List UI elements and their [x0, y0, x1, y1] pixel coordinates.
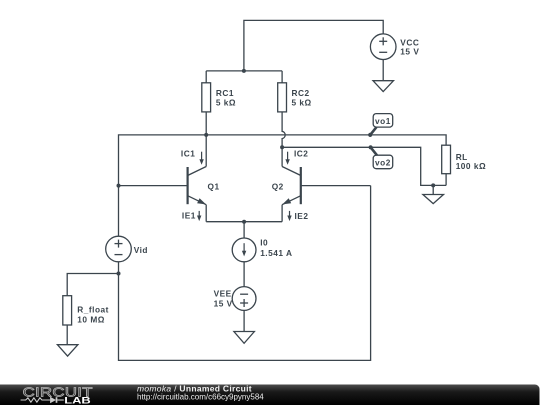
svg-text:I0: I0 — [260, 237, 268, 247]
annotation arrow IC1 — [199, 152, 203, 165]
svg-text:R_float: R_float — [77, 305, 109, 315]
label R_float value — [77, 305, 109, 325]
label IE1 — [182, 210, 196, 220]
wire vo2 net — [282, 147, 446, 185]
svg-text:LAB: LAB — [64, 396, 91, 405]
label vo1 — [375, 116, 391, 126]
svg-text:IC2: IC2 — [294, 148, 308, 158]
CircuitLab logo — [21, 385, 93, 405]
svg-text:IC1: IC1 — [181, 148, 195, 158]
svg-text:10 MΩ: 10 MΩ — [77, 314, 105, 324]
svg-text:100 kΩ: 100 kΩ — [456, 161, 486, 171]
label RC1 value — [216, 88, 236, 107]
node junction Vid bottom — [117, 272, 121, 276]
annotation arrow IE2 — [287, 211, 291, 221]
net flag vo1 — [368, 114, 393, 137]
label IE2 — [295, 211, 309, 221]
ground under RL — [423, 195, 444, 204]
current source I0 — [232, 222, 256, 287]
label vo2 — [375, 158, 391, 168]
wire R_float branch — [67, 274, 118, 296]
resistor RL — [442, 145, 451, 185]
transistor Q1 — [188, 135, 207, 222]
node junction RC2 collector — [280, 145, 284, 149]
node junction RL bottom — [431, 183, 435, 187]
label RC2 value — [292, 88, 312, 107]
ground under R_float — [57, 345, 78, 356]
svg-text:http://circuitlab.com/c66cy9py: http://circuitlab.com/c66cy9pyny584 — [137, 393, 264, 402]
voltage source Vid — [106, 186, 132, 274]
svg-text:Q2: Q2 — [272, 182, 284, 192]
resistor RC1 — [202, 71, 211, 135]
wire Q2 base — [301, 185, 371, 187]
ground under VEE — [234, 332, 255, 344]
annotation arrow IE1 — [197, 211, 201, 221]
wire bottom feedback loop — [119, 186, 371, 361]
voltage source VCC — [370, 34, 396, 81]
svg-text:Vid: Vid — [134, 245, 148, 255]
footer bar — [0, 385, 540, 405]
svg-text:vo1: vo1 — [375, 116, 391, 126]
node junction emitter rail — [242, 220, 246, 224]
node junction top rail — [242, 69, 246, 73]
svg-text:IE2: IE2 — [295, 211, 309, 221]
svg-text:15 V: 15 V — [400, 46, 419, 56]
svg-text:5 kΩ: 5 kΩ — [292, 97, 312, 107]
wire Q1 base — [119, 185, 188, 187]
svg-text:15 V: 15 V — [214, 298, 233, 308]
label IC2 — [294, 148, 308, 158]
wire emitter rail — [206, 221, 282, 223]
node junction Q1 base — [117, 184, 121, 188]
svg-text:IE1: IE1 — [182, 210, 196, 220]
annotation arrow IC2 — [285, 152, 289, 165]
net flag vo2 — [369, 145, 393, 169]
wire vo1 net — [119, 135, 447, 186]
svg-text:vo2: vo2 — [375, 158, 391, 168]
label I0 value — [260, 237, 292, 258]
resistor RC2 — [278, 71, 287, 147]
footer circuit title — [137, 383, 264, 401]
ground under VCC — [373, 81, 394, 92]
label Vid — [134, 245, 148, 255]
wire top rail VCC feed — [244, 20, 383, 71]
wire RL ground stub — [432, 185, 434, 194]
label VCC value — [400, 38, 419, 57]
transistor Q2 — [282, 147, 301, 221]
svg-text:Q1: Q1 — [208, 182, 220, 192]
wire RC1-RC2 top rail — [206, 70, 282, 72]
svg-text:VEE: VEE — [214, 289, 232, 299]
node junction RC1 collector — [204, 133, 208, 137]
svg-text:5 kΩ: 5 kΩ — [216, 97, 236, 107]
voltage source VEE — [232, 287, 256, 332]
label Q2 — [272, 182, 284, 192]
label VEE value — [214, 289, 233, 309]
label RL value — [456, 152, 486, 171]
label IC1 — [181, 148, 195, 158]
svg-text:1.541 A: 1.541 A — [260, 248, 292, 258]
resistor R_float — [63, 296, 72, 345]
label Q1 — [208, 182, 220, 192]
